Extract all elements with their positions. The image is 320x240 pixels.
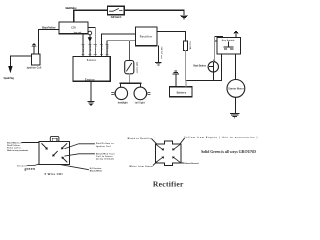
- svg-text:Stator: Stator: [87, 59, 97, 62]
- svg-text:Black/White: Black/White: [90, 170, 103, 173]
- svg-text:Pulse coil in: Pulse coil in: [7, 148, 21, 150]
- svg-text:Kill Switch: Kill Switch: [111, 16, 122, 19]
- svg-text:White: White: [106, 46, 109, 55]
- svg-text:-: -: [173, 84, 174, 88]
- svg-text:box unit: box unit: [74, 31, 82, 34]
- svg-text:headlight: headlight: [118, 101, 128, 104]
- svg-text:Green/Ground: Green/Ground: [185, 163, 199, 165]
- svg-text:Black to Rectifier: Black to Rectifier: [128, 137, 153, 140]
- svg-text:Fuse 10A: Fuse 10A: [189, 42, 192, 51]
- svg-text:Kill button: Kill button: [90, 167, 102, 170]
- svg-text:Yellow: Yellow: [100, 46, 102, 54]
- svg-text:Red/Yellow to: Red/Yellow to: [96, 142, 114, 145]
- svg-text:12V DC out: 12V DC out: [160, 47, 163, 59]
- svg-text:tail light: tail light: [135, 101, 145, 104]
- svg-text:Ignition Coil: Ignition Coil: [27, 67, 42, 70]
- svg-text:Blk/Wht: Blk/Wht: [82, 46, 85, 54]
- svg-text:Black/Yellow: Black/Yellow: [42, 26, 56, 30]
- svg-text:5 Wire CDI: 5 Wire CDI: [45, 172, 63, 176]
- svg-text:Battery: Battery: [177, 91, 187, 95]
- svg-text:Ignition Coil: Ignition Coil: [96, 145, 111, 148]
- svg-text:(to any terminal): (to any terminal): [96, 158, 114, 161]
- svg-text:Black/Yellow: Black/Yellow: [66, 6, 78, 10]
- svg-text:Blk/Red: Blk/Red: [89, 46, 91, 55]
- svg-text:Rectifier: Rectifier: [140, 35, 153, 38]
- svg-text:Engine: Engine: [85, 78, 95, 81]
- svg-text:green: green: [24, 167, 36, 171]
- svg-text:Male on any terminals: Male on any terminals: [7, 149, 29, 152]
- svg-text:White from Stator: White from Stator: [129, 165, 153, 168]
- svg-text:Yellow from Engine ( this to: Yellow from Engine ( this to accessories…: [184, 136, 257, 139]
- svg-text:Key Switch: Key Switch: [222, 39, 235, 42]
- svg-text:Starter Motor: Starter Motor: [228, 88, 244, 91]
- svg-text:Solid Green is all ways GROUND: Solid Green is all ways GROUND: [201, 149, 256, 154]
- svg-text:Coil to Stator: Coil to Stator: [96, 155, 113, 158]
- svg-text:CDI: CDI: [71, 28, 76, 30]
- svg-text:Spark Plug: Spark Plug: [4, 77, 15, 80]
- svg-text:Rectifier: Rectifier: [153, 179, 184, 188]
- svg-text:Green: Green: [94, 46, 96, 55]
- svg-text:Black/Red from: Black/Red from: [96, 152, 115, 155]
- svg-text:Start Button: Start Button: [193, 64, 207, 67]
- svg-text:light switch: light switch: [135, 62, 138, 74]
